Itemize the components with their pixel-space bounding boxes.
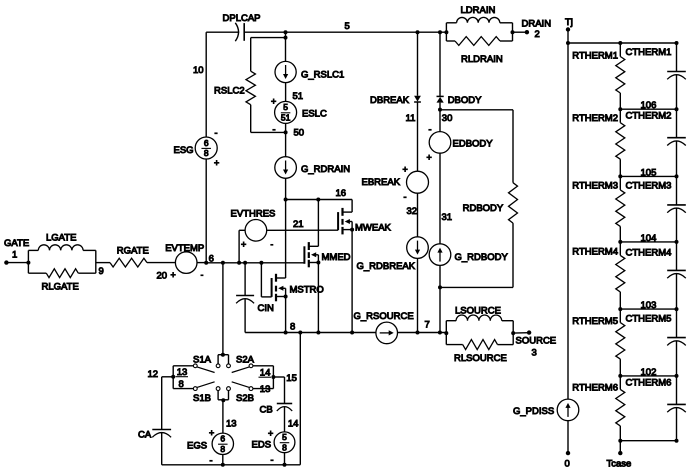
- wire: [285, 123, 287, 156]
- svg-text:CTHERM6: CTHERM6: [626, 378, 672, 389]
- svg-text:Tj: Tj: [565, 17, 573, 28]
- svg-text:EDS: EDS: [252, 440, 272, 451]
- svg-text:3: 3: [532, 348, 537, 359]
- svg-text:8: 8: [204, 148, 209, 158]
- wire: [417, 258, 419, 332]
- svg-text:DRAIN: DRAIN: [522, 19, 552, 30]
- svg-text:CTHERM1: CTHERM1: [626, 47, 672, 58]
- svg-text:RDBODY: RDBODY: [463, 203, 504, 214]
- capacitor CTHERM1: [626, 43, 686, 109]
- resistor RLDRAIN: [446, 37, 512, 65]
- svg-text:21: 21: [293, 219, 304, 230]
- node 8 rail: [245, 322, 376, 335]
- wire box right: [253, 366, 276, 389]
- svg-text:CB: CB: [260, 405, 273, 416]
- switch S2A: [227, 354, 255, 372]
- wire: [223, 453, 285, 465]
- capacitor CTHERM5: [626, 309, 686, 376]
- node 6: [204, 254, 214, 265]
- node 105: [618, 167, 678, 178]
- current source G_RSLC1: [275, 61, 344, 82]
- node 5 label: [345, 21, 350, 32]
- node 103: [618, 300, 678, 311]
- svg-text:ESG: ESG: [174, 145, 194, 156]
- svg-text:103: 103: [641, 300, 657, 311]
- svg-text:105: 105: [641, 167, 657, 178]
- svg-text:DPLCAP: DPLCAP: [223, 13, 261, 24]
- current source G_PDISS: [513, 399, 579, 421]
- svg-text:CTHERM2: CTHERM2: [626, 111, 672, 122]
- current source G_RSOURCE: [354, 311, 414, 344]
- transistor MSTRO: [272, 274, 324, 302]
- svg-text:2: 2: [535, 29, 540, 40]
- wire: [417, 193, 419, 237]
- wire: [96, 262, 110, 264]
- svg-text:EDBODY: EDBODY: [453, 139, 494, 150]
- wire: [6, 262, 28, 264]
- wire: [351, 230, 353, 333]
- inductor LSOURCE: [446, 305, 513, 320]
- source EBREAK: [362, 165, 429, 203]
- svg-text:9: 9: [99, 266, 104, 277]
- svg-text:RTHERM1: RTHERM1: [572, 51, 618, 62]
- wire: [444, 321, 515, 345]
- svg-text:12: 12: [148, 369, 159, 380]
- svg-text:0: 0: [565, 459, 570, 470]
- wire switch common top: [218, 355, 228, 364]
- wire: [444, 23, 514, 41]
- svg-text:-: -: [271, 240, 274, 249]
- svg-text:CTHERM3: CTHERM3: [626, 181, 672, 192]
- label 14/13 right: [259, 368, 272, 395]
- wire: [317, 200, 319, 247]
- capacitor DPLCAP: [223, 13, 261, 41]
- resistor RLSOURCE: [446, 340, 513, 364]
- svg-text:S1A: S1A: [193, 354, 212, 365]
- terminal DRAIN pin 2: [513, 19, 552, 41]
- wire: [438, 30, 442, 96]
- terminal GATE pin 1: [4, 238, 29, 265]
- source EDS: [252, 429, 295, 466]
- svg-text:+: +: [403, 165, 408, 175]
- svg-text:104: 104: [641, 233, 657, 244]
- terminal 0: [565, 421, 571, 470]
- node 30: [438, 108, 452, 124]
- diode DBODY: [437, 95, 483, 106]
- svg-text:CTHERM5: CTHERM5: [626, 314, 672, 325]
- svg-text:51: 51: [281, 113, 291, 123]
- svg-text:13: 13: [226, 419, 237, 430]
- svg-text:G_RSOURCE: G_RSOURCE: [354, 311, 414, 322]
- svg-text:LDRAIN: LDRAIN: [461, 5, 496, 16]
- current source G_RDRAIN: [275, 157, 350, 179]
- svg-text:-: -: [201, 271, 204, 280]
- resistor RGATE: [110, 246, 149, 268]
- node 9 junction (gate box left): [26, 261, 30, 265]
- svg-text:SOURCE: SOURCE: [516, 336, 557, 347]
- resistor RTHERM1: [572, 43, 625, 109]
- svg-text:S2B: S2B: [236, 393, 254, 404]
- wire: [438, 265, 442, 332]
- wire node 5 rail: [244, 31, 446, 33]
- svg-text:13: 13: [260, 384, 271, 395]
- svg-text:14: 14: [288, 419, 299, 430]
- node 104: [618, 233, 678, 244]
- svg-text:-: -: [271, 455, 274, 465]
- svg-text:RGATE: RGATE: [117, 246, 149, 257]
- svg-text:RTHERM3: RTHERM3: [572, 181, 618, 192]
- svg-text:6: 6: [204, 138, 209, 148]
- terminal Tj: [565, 17, 573, 32]
- svg-text:RSLC2: RSLC2: [214, 86, 245, 97]
- inductor LGATE: [28, 233, 95, 251]
- svg-text:DBODY: DBODY: [448, 95, 482, 106]
- svg-text:ESLC: ESLC: [302, 109, 327, 120]
- svg-text:50: 50: [294, 128, 305, 139]
- current source G_RDBREAK: [357, 237, 429, 272]
- wire box left: [171, 366, 193, 389]
- resistor RTHERM4: [572, 242, 625, 309]
- node 7 rail: [398, 320, 447, 335]
- wire thermal rail: [566, 30, 570, 400]
- svg-text:EVTEMP: EVTEMP: [165, 243, 204, 254]
- switch S1B: [193, 382, 220, 404]
- wire: [261, 263, 271, 297]
- wire switch common bottom: [218, 391, 228, 403]
- diode DBREAK: [370, 95, 421, 106]
- inductor LDRAIN: [446, 5, 512, 23]
- switch S1A: [193, 354, 220, 372]
- svg-text:8: 8: [179, 379, 184, 390]
- svg-text:6: 6: [220, 434, 225, 444]
- node 20 label: [157, 271, 168, 282]
- svg-text:15: 15: [286, 373, 297, 384]
- svg-text:+: +: [427, 153, 432, 163]
- capacitor CTHERM4: [626, 242, 686, 309]
- svg-text:RTHERM2: RTHERM2: [572, 113, 618, 124]
- svg-text:+: +: [209, 428, 214, 438]
- svg-text:-: -: [210, 456, 213, 466]
- svg-text:16: 16: [336, 188, 347, 199]
- capacitor CTHERM3: [626, 176, 686, 242]
- svg-text:RTHERM5: RTHERM5: [572, 316, 618, 327]
- wire: [416, 30, 420, 96]
- node 32 label: [407, 206, 418, 217]
- node 11 label: [406, 113, 416, 124]
- svg-text:RLSOURCE: RLSOURCE: [454, 353, 507, 364]
- svg-text:RTHERM4: RTHERM4: [572, 247, 618, 258]
- svg-text:G_PDISS: G_PDISS: [513, 406, 554, 417]
- label 13/8 left: [176, 367, 189, 390]
- svg-text:+: +: [271, 97, 276, 107]
- svg-text:+: +: [268, 429, 273, 439]
- resistor RDBODY: [440, 110, 518, 288]
- wire: [221, 263, 225, 357]
- svg-text:G_RSLC1: G_RSLC1: [301, 69, 344, 80]
- svg-text:G_RDBREAK: G_RDBREAK: [357, 261, 416, 272]
- node 21 wire: [267, 219, 338, 230]
- svg-text:LGATE: LGATE: [46, 233, 76, 244]
- wire: [205, 159, 207, 263]
- node 102: [618, 367, 678, 378]
- svg-text:5: 5: [282, 432, 287, 442]
- source EVTEMP: [165, 243, 204, 280]
- wire: [273, 377, 284, 404]
- wire: [285, 297, 287, 333]
- wire: [285, 83, 287, 102]
- transistor MMED: [304, 242, 350, 267]
- svg-text:5: 5: [283, 102, 288, 112]
- node 9: [99, 266, 104, 277]
- svg-text:RLDRAIN: RLDRAIN: [461, 54, 503, 65]
- transistor MWEAK: [338, 208, 391, 235]
- wire: [299, 333, 301, 465]
- wire: [568, 41, 679, 45]
- svg-text:RLGATE: RLGATE: [42, 282, 79, 293]
- source ESLC: [275, 101, 327, 123]
- svg-text:+: +: [241, 239, 246, 249]
- terminal Tcase: [607, 441, 632, 470]
- resistor RLGATE: [28, 269, 95, 293]
- svg-text:CIN: CIN: [258, 303, 275, 314]
- svg-text:EGS: EGS: [187, 441, 207, 452]
- svg-text:31: 31: [442, 212, 453, 223]
- node 12 label: [148, 369, 159, 380]
- node 31 label: [442, 212, 453, 223]
- svg-text:GATE: GATE: [4, 238, 29, 249]
- wire: [239, 230, 245, 262]
- capacitor CB: [260, 404, 293, 416]
- svg-text:LSOURCE: LSOURCE: [455, 305, 501, 316]
- svg-text:11: 11: [406, 113, 416, 124]
- svg-text:8: 8: [220, 444, 225, 454]
- svg-text:+: +: [171, 270, 176, 280]
- svg-text:32: 32: [407, 206, 418, 217]
- wire: [223, 400, 237, 433]
- resistor RTHERM2: [572, 109, 625, 176]
- node 106: [618, 100, 678, 111]
- svg-text:S1B: S1B: [193, 393, 211, 404]
- svg-text:Tcase: Tcase: [607, 459, 632, 470]
- wire: [197, 262, 206, 264]
- svg-text:-: -: [215, 128, 218, 138]
- svg-text:S2A: S2A: [236, 354, 255, 365]
- svg-text:1: 1: [12, 250, 17, 261]
- wire thermal bottom: [618, 439, 678, 443]
- capacitor CA: [138, 430, 171, 465]
- node 5 junction: [284, 30, 288, 39]
- wire: [351, 200, 353, 213]
- wire: [28, 250, 95, 273]
- source ESG: [174, 128, 220, 168]
- wire: [417, 102, 419, 171]
- current source G_RDBODY: [429, 244, 508, 266]
- svg-text:MWEAK: MWEAK: [355, 222, 392, 233]
- svg-text:G_RDRAIN: G_RDRAIN: [301, 164, 350, 175]
- svg-text:-: -: [404, 192, 407, 202]
- wire: [439, 153, 441, 244]
- svg-text:-: -: [429, 125, 432, 135]
- svg-text:RTHERM6: RTHERM6: [572, 383, 618, 394]
- source EDBODY: [427, 125, 494, 163]
- svg-text:MMED: MMED: [322, 252, 351, 263]
- svg-text:DBREAK: DBREAK: [370, 95, 410, 106]
- svg-text:7: 7: [425, 320, 430, 331]
- svg-text:G_RDBODY: G_RDBODY: [455, 252, 509, 263]
- svg-text:5: 5: [345, 21, 350, 32]
- wire bottom rail: [162, 463, 301, 467]
- source EGS: [187, 428, 234, 466]
- wire: [285, 38, 287, 62]
- source EVTHRES: [231, 209, 276, 250]
- svg-text:102: 102: [641, 367, 657, 378]
- svg-text:EBREAK: EBREAK: [362, 177, 401, 188]
- svg-text:8: 8: [290, 322, 295, 333]
- node 50: [273, 125, 305, 139]
- svg-text:51: 51: [293, 91, 304, 102]
- svg-text:20: 20: [157, 271, 168, 282]
- wire: [285, 407, 299, 432]
- terminal SOURCE pin 3: [513, 330, 556, 358]
- svg-text:CTHERM4: CTHERM4: [626, 248, 672, 259]
- capacitor CTHERM6: [626, 376, 686, 441]
- wire: [317, 263, 319, 333]
- resistor RSLC2: [214, 38, 286, 133]
- node 51 label: [271, 91, 303, 107]
- wire: [206, 32, 239, 137]
- svg-text:10: 10: [193, 65, 204, 76]
- wire: [162, 377, 174, 430]
- svg-text:EVTHRES: EVTHRES: [231, 209, 276, 220]
- wire: [147, 262, 175, 264]
- wire: [285, 200, 287, 279]
- svg-text:+: +: [214, 158, 219, 168]
- switch S2B: [227, 382, 254, 404]
- wire bus node 6: [206, 261, 304, 265]
- node 10 label: [193, 65, 204, 76]
- resistor RTHERM3: [572, 176, 625, 242]
- svg-text:MSTRO: MSTRO: [290, 285, 324, 296]
- node 15 label: [286, 373, 297, 384]
- resistor RTHERM5: [572, 309, 625, 376]
- node 16: [284, 188, 353, 202]
- svg-text:-: -: [273, 125, 276, 135]
- capacitor CIN: [236, 263, 274, 333]
- svg-text:CA: CA: [138, 430, 152, 441]
- svg-text:30: 30: [442, 113, 453, 124]
- wire: [439, 103, 441, 132]
- svg-text:8: 8: [282, 443, 287, 453]
- resistor RTHERM6: [572, 376, 625, 441]
- capacitor CTHERM2: [626, 109, 686, 176]
- wire: [285, 178, 287, 199]
